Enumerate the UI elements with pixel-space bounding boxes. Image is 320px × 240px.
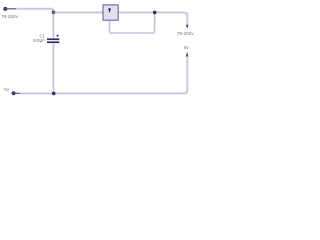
svg-text:500µF: 500µF [33,38,45,43]
label: C1 [39,33,45,38]
wire: bypass from box bottom pin down, right and up to top rail [110,12,155,33]
node C: junction bottom of C1 [52,92,56,96]
terminal arrow: output (pointing down) [186,25,189,29]
svg-text:78-250v: 78-250v [1,14,19,19]
value label: 500uF [33,38,45,43]
glyph inside box [108,8,111,12]
svg-text:0v: 0v [184,45,190,50]
polarity + mark of C1 [56,34,59,37]
terminal: live input blob (top left) [3,7,7,11]
label: 0v (left) [4,87,10,92]
wire: top rail corner down to output terminal [184,12,187,25]
capacitor C1 top plate [47,38,59,40]
wire: top rail from node A to right corner [53,11,184,13]
wire: C1 top lead [52,12,54,38]
label: 0v (right) [184,45,190,50]
terminal arrow: 0v return (pointing up) [186,52,189,57]
capacitor C1 bottom plate [47,41,59,43]
IC box component [103,5,118,20]
node A: junction top of C1 [52,11,56,15]
wire: bottom rail [19,92,185,94]
node B: junction bypass to top rail [153,11,157,15]
label: input voltage 78-250v [1,14,19,19]
terminal: 0v input blob (bottom left) [12,91,16,95]
label: output voltage 78-250v [177,31,195,36]
wire: C1 bottom lead [52,43,54,93]
wire: input segment with jog down to node A [16,9,54,13]
wire: right side down to bottom rail [184,56,187,93]
wire: dark stub from 0v terminal [14,92,20,94]
wire: dark stub from input terminal [5,8,16,10]
svg-text:0v: 0v [4,87,10,92]
svg-text:78-250v: 78-250v [177,31,195,36]
